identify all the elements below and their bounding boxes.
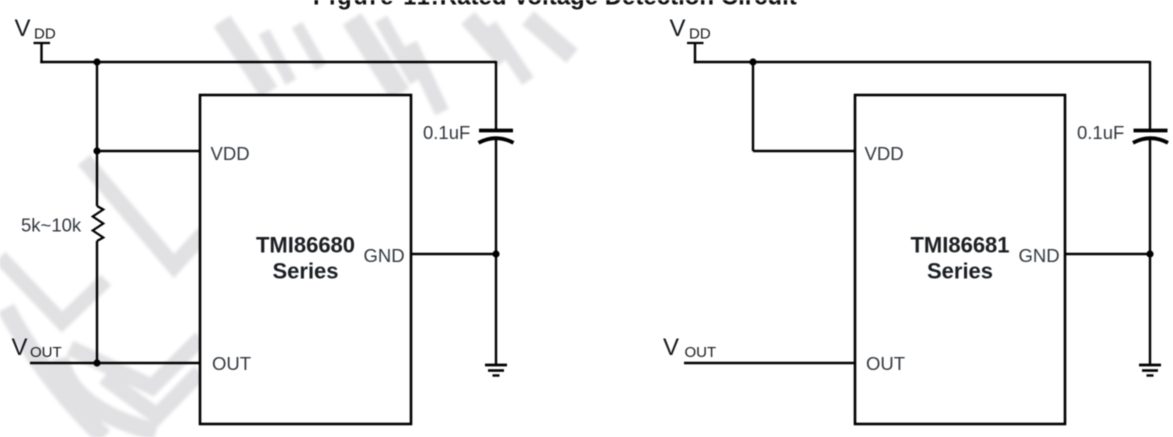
svg-text:VDD: VDD	[211, 143, 250, 164]
svg-text:OUT: OUT	[685, 344, 717, 361]
svg-text:V: V	[15, 15, 31, 42]
svg-text:Rated Voltage Detection Circui: Rated Voltage Detection Circuit	[440, 0, 797, 11]
svg-text:0.1uF: 0.1uF	[1077, 122, 1124, 143]
svg-text:OUT: OUT	[866, 353, 905, 374]
svg-text:0.1uF: 0.1uF	[423, 122, 470, 143]
svg-text:OUT: OUT	[30, 344, 62, 361]
svg-text:TMI86681: TMI86681	[910, 233, 1009, 258]
svg-text:GND: GND	[364, 245, 405, 266]
svg-text:V: V	[12, 334, 28, 361]
svg-text:V: V	[663, 334, 679, 361]
svg-text:OUT: OUT	[212, 353, 251, 374]
svg-text:Figure 11.: Figure 11.	[313, 0, 440, 10]
svg-text:GND: GND	[1019, 245, 1060, 266]
svg-text:DD: DD	[689, 26, 711, 43]
svg-text:VDD: VDD	[865, 143, 904, 164]
svg-text:DD: DD	[34, 26, 56, 43]
svg-text:Series: Series	[272, 259, 338, 284]
svg-text:V: V	[670, 15, 686, 42]
svg-text:Series: Series	[927, 259, 993, 284]
svg-text:5k~10k: 5k~10k	[21, 215, 82, 236]
svg-text:TMI86680: TMI86680	[256, 233, 355, 258]
